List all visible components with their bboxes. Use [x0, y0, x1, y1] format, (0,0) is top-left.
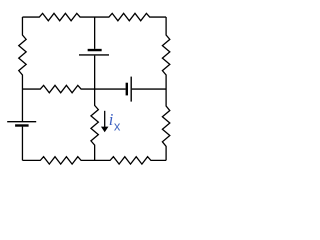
svg-text:x: x — [114, 119, 121, 134]
